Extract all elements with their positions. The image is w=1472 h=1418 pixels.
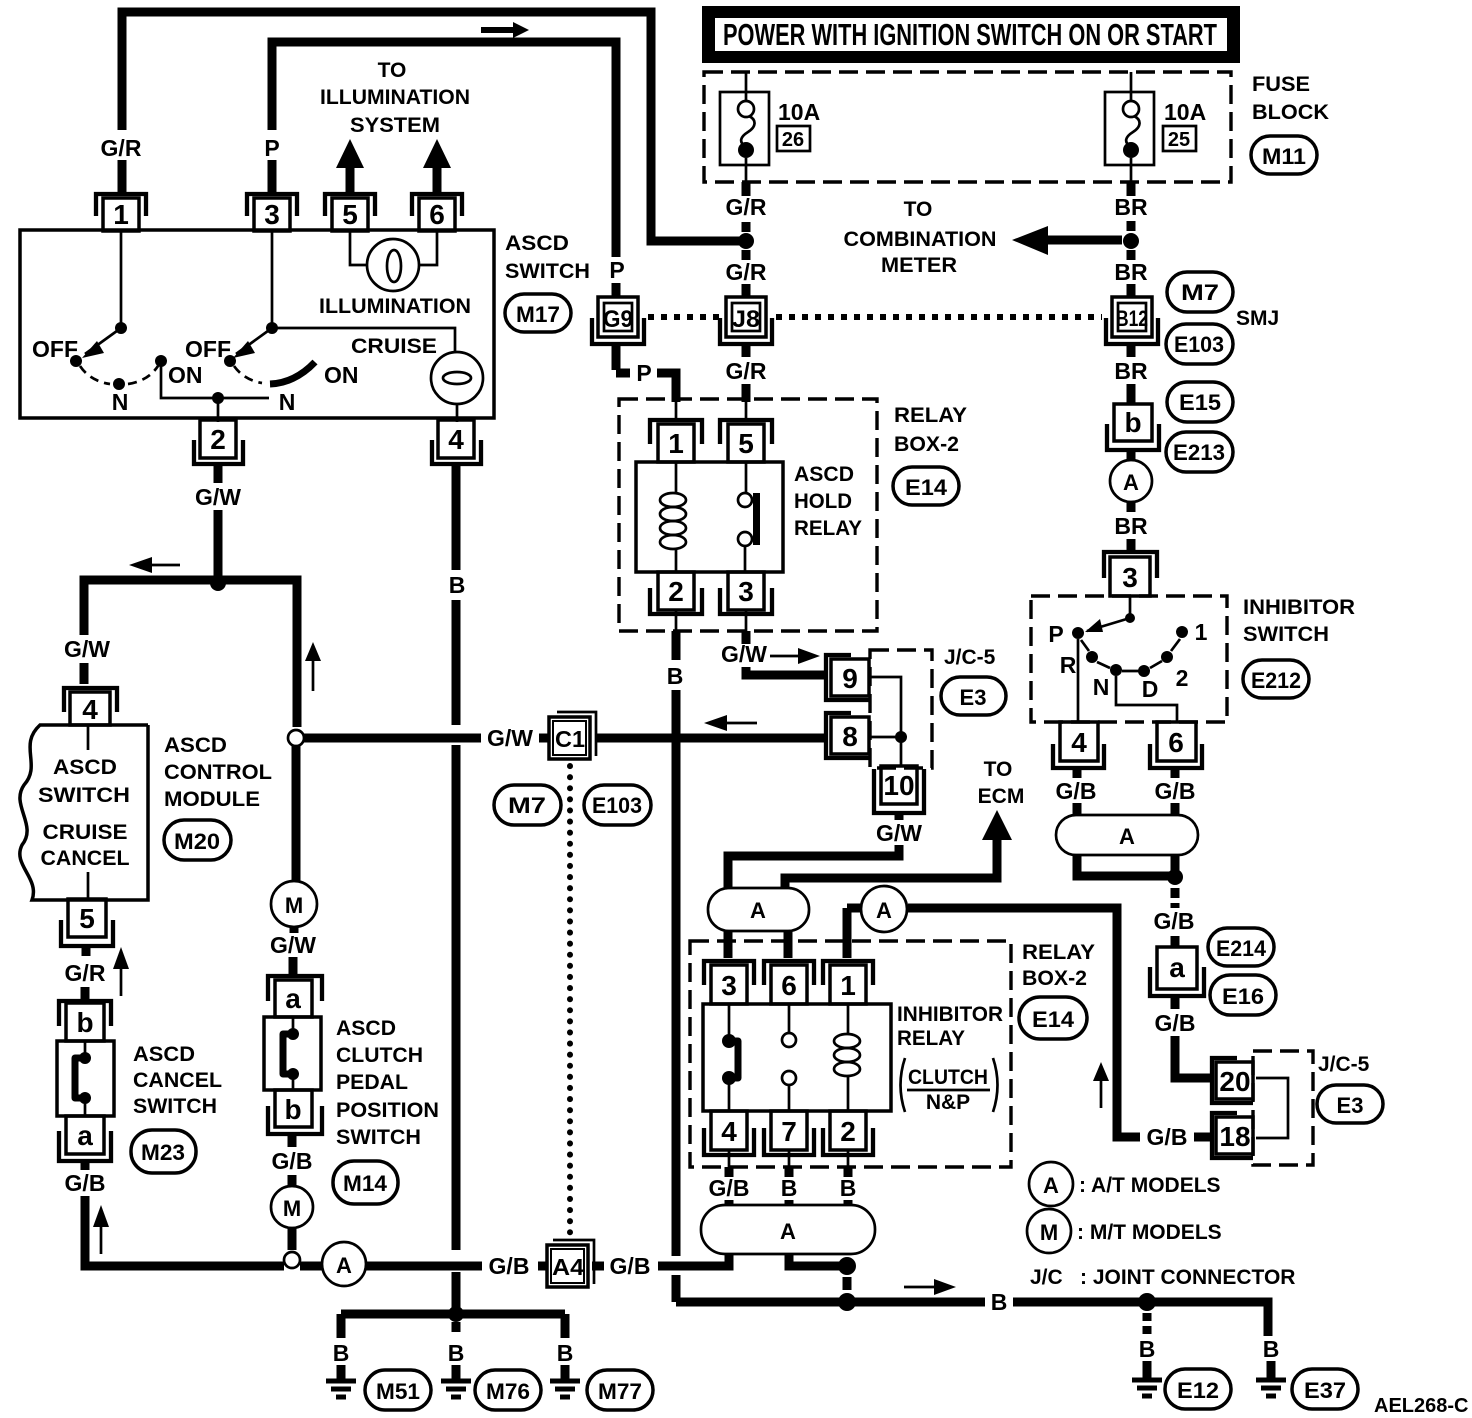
svg-text:MODULE: MODULE bbox=[164, 788, 260, 811]
svg-text:M76: M76 bbox=[486, 1379, 530, 1404]
ground bus below B wire bbox=[341, 1314, 565, 1338]
contact R bbox=[1086, 651, 1098, 663]
wire BR from circle A to inhibitor connector 3 bbox=[1127, 502, 1136, 552]
wire stub to E37 ground bbox=[1267, 1361, 1276, 1380]
svg-text:G/W: G/W bbox=[64, 636, 110, 662]
svg-text:5: 5 bbox=[738, 428, 754, 459]
node below pill bbox=[1167, 869, 1183, 885]
svg-text:TO: TO bbox=[904, 198, 933, 221]
label ASCD HOLD RELAY bbox=[794, 463, 862, 540]
svg-text:a: a bbox=[77, 1120, 93, 1151]
connector oval E3 bbox=[941, 677, 1006, 715]
J/C-5 pin 20 bbox=[1212, 1058, 1253, 1103]
label TO COMBINATION METER bbox=[844, 198, 997, 277]
wire stub to E12 ground bbox=[1143, 1361, 1152, 1380]
svg-text:ON: ON bbox=[168, 362, 203, 388]
svg-text:ASCD: ASCD bbox=[133, 1043, 195, 1066]
wire from M circle to main run node bbox=[288, 1228, 297, 1250]
J/C-5 pin 18 bbox=[1212, 1113, 1253, 1158]
svg-text:G/B: G/B bbox=[272, 1148, 313, 1174]
J/C-5 dashed box E3 bbox=[870, 650, 932, 768]
svg-text:ON: ON bbox=[324, 362, 359, 388]
connector pin 4 of ASCD switch bbox=[432, 420, 481, 464]
connector oval M20 bbox=[164, 820, 231, 860]
circle A (A/T models) in BR run bbox=[1110, 460, 1152, 502]
wire from b to A/T circle bbox=[1127, 450, 1136, 461]
J/C-5 internal wiring 20-18 bbox=[1256, 1078, 1288, 1138]
svg-text:G/B: G/B bbox=[1155, 778, 1196, 804]
svg-text:G/W: G/W bbox=[270, 932, 316, 958]
main switch dashed detent arc OFF-N-ON bbox=[80, 366, 158, 384]
svg-text:3: 3 bbox=[738, 576, 754, 607]
svg-text:G/R: G/R bbox=[101, 135, 142, 161]
svg-text:P: P bbox=[636, 360, 651, 386]
inhibitor relay connector 1 bbox=[823, 961, 873, 1004]
wires from connectors 4 7 2 out of relay box bbox=[729, 1150, 848, 1167]
svg-text:CLUTCH: CLUTCH bbox=[908, 1066, 988, 1089]
svg-text:6: 6 bbox=[429, 199, 445, 230]
wire G/B from a to J/C-5 pin 20 bbox=[1175, 996, 1210, 1078]
cruise switch wire from pin 3 to pivot bbox=[271, 231, 274, 328]
pin 2 node bbox=[212, 392, 224, 404]
svg-text:1: 1 bbox=[1195, 619, 1208, 645]
svg-text:4: 4 bbox=[721, 1116, 737, 1147]
svg-text:G/W: G/W bbox=[721, 641, 767, 667]
svg-text:M20: M20 bbox=[174, 829, 220, 854]
svg-text:A: A bbox=[336, 1253, 352, 1278]
svg-text:G/R: G/R bbox=[726, 259, 767, 285]
wire from contact P to connector 4 bbox=[1077, 639, 1080, 723]
svg-text:E12: E12 bbox=[1177, 1378, 1219, 1403]
svg-text:M23: M23 bbox=[141, 1140, 185, 1165]
inhibitor relay connector 6 bbox=[764, 961, 814, 1004]
wire G/B from connector 4 to A/T pill bbox=[1073, 768, 1082, 816]
hold relay connector pin 2 bbox=[650, 572, 702, 614]
svg-text:SWITCH: SWITCH bbox=[133, 1095, 217, 1118]
wire from module node down to M/T circle bbox=[292, 746, 301, 882]
arrow up beside module wire bbox=[305, 642, 321, 691]
svg-text:POWER WITH IGNITION SWITCH ON: POWER WITH IGNITION SWITCH ON OR START bbox=[723, 17, 1217, 52]
ground M77 bbox=[550, 1365, 580, 1397]
svg-text:INHIBITOR: INHIBITOR bbox=[897, 1003, 1003, 1026]
cruise lamp bbox=[431, 352, 483, 404]
connector oval E103 (SMJ) bbox=[1166, 324, 1233, 364]
svg-text:26: 26 bbox=[782, 129, 804, 151]
inhibitor relay coil pins 1-2 bbox=[834, 1004, 860, 1111]
svg-text:2: 2 bbox=[1176, 665, 1189, 691]
svg-text:N: N bbox=[1093, 674, 1110, 700]
label (CLUTCH / N&P) bbox=[901, 1058, 998, 1114]
label RELAY BOX-2 bbox=[1022, 941, 1095, 990]
arrow left above junction bbox=[129, 557, 180, 573]
J/C-5 internal wiring 9-8-10 bbox=[869, 677, 901, 766]
inhibitor relay connector 3 bbox=[704, 961, 754, 1004]
svg-text:B: B bbox=[1263, 1336, 1280, 1362]
connector pin 3 of ASCD switch bbox=[247, 194, 297, 231]
svg-text:E14: E14 bbox=[1032, 1007, 1075, 1032]
wire G/W left branch to cruise cancel pin 4 bbox=[84, 580, 218, 684]
hold relay connector pin 5 bbox=[720, 420, 772, 462]
svg-text:BR: BR bbox=[1114, 194, 1148, 220]
svg-text:A4: A4 bbox=[552, 1254, 584, 1280]
label INHIBITOR SWITCH bbox=[1243, 596, 1355, 646]
connector C1 bbox=[549, 712, 596, 759]
arrow up beside G/R wire bbox=[113, 947, 129, 996]
illumination lamp bbox=[367, 239, 419, 291]
svg-text:B: B bbox=[840, 1175, 857, 1201]
svg-text:D: D bbox=[1142, 676, 1159, 702]
svg-text:b: b bbox=[284, 1094, 301, 1125]
svg-text:B12: B12 bbox=[1116, 306, 1148, 331]
inhibitor relay connector 4 bbox=[704, 1111, 754, 1155]
arrow to ECM bbox=[982, 810, 1012, 840]
connector G9 bbox=[592, 297, 644, 344]
svg-text:ASCD: ASCD bbox=[794, 463, 854, 486]
connector oval E14 bbox=[893, 467, 959, 505]
svg-text:ASCD: ASCD bbox=[505, 232, 569, 255]
svg-text:G/R: G/R bbox=[726, 358, 767, 384]
arrow up beside G/B wire bbox=[93, 1205, 109, 1254]
svg-text:2: 2 bbox=[840, 1116, 856, 1147]
connector A4 bbox=[547, 1240, 594, 1287]
ground M51 bbox=[326, 1365, 356, 1397]
cruise switch engaged thick arc N-ON bbox=[270, 362, 315, 384]
connector oval M11 bbox=[1251, 136, 1317, 174]
svg-text:B: B bbox=[991, 1289, 1008, 1315]
svg-text:M17: M17 bbox=[516, 302, 560, 327]
connector oval E213 bbox=[1166, 432, 1233, 472]
label ASCD CLUTCH PEDAL POSITION SWITCH bbox=[336, 1017, 439, 1149]
wire B from ASCD switch pin 4 down to ground bus bbox=[452, 464, 461, 1314]
wire G/W from M circle to clutch switch pin a bbox=[293, 927, 294, 974]
svg-text:C1: C1 bbox=[555, 726, 585, 752]
wire from main ON contact to pin 2 node bbox=[161, 365, 218, 398]
svg-text:M7: M7 bbox=[1181, 280, 1219, 305]
wire G/W from hold relay pin 3 to J/C-5 pin 9 bbox=[745, 610, 748, 631]
svg-text:B: B bbox=[1139, 1336, 1156, 1362]
dashed wire to E12 ground bbox=[1143, 1313, 1152, 1334]
connector oval M77 bbox=[587, 1370, 653, 1410]
connector oval E3 bbox=[1317, 1085, 1383, 1123]
label TO ILLUMINATION SYSTEM bbox=[320, 59, 470, 137]
connector oval E15 bbox=[1167, 382, 1233, 422]
svg-text:M: M bbox=[283, 1196, 301, 1221]
svg-text:B: B bbox=[333, 1340, 350, 1366]
svg-text:7: 7 bbox=[781, 1116, 797, 1147]
contact D bbox=[1138, 665, 1150, 677]
circle A (A/T) on inhibitor relay pin 1 wire bbox=[847, 886, 907, 958]
wire G/W right branch down to module node bbox=[218, 580, 297, 727]
ground E37 bbox=[1256, 1380, 1286, 1396]
cruise switch pivot node bbox=[266, 322, 278, 334]
fuse block M11 dashed box bbox=[704, 72, 1231, 182]
A/T models pill (inhibitor switch feeds) bbox=[1056, 815, 1198, 855]
node G/W junction bbox=[210, 575, 226, 591]
connector pin 5 of ASCD switch bbox=[325, 194, 375, 231]
svg-text:ILLUMINATION: ILLUMINATION bbox=[320, 86, 470, 109]
svg-text:INHIBITOR: INHIBITOR bbox=[1243, 596, 1355, 619]
svg-text:3: 3 bbox=[721, 970, 737, 1001]
svg-text:R: R bbox=[1060, 652, 1077, 678]
wire P jog into relay box bbox=[657, 373, 676, 402]
svg-text:G/B: G/B bbox=[1056, 778, 1097, 804]
wire B stub pin 7 bbox=[785, 1167, 794, 1177]
connector oval E214 bbox=[1208, 928, 1274, 966]
svg-text:AEL268-C: AEL268-C bbox=[1374, 1395, 1468, 1417]
inhibitor rotor arm to P bbox=[1085, 618, 1130, 632]
connector pin 2 of ASCD switch bbox=[194, 420, 243, 464]
svg-text:6: 6 bbox=[1168, 727, 1184, 758]
svg-text:E3: E3 bbox=[960, 685, 987, 710]
svg-text:POSITION: POSITION bbox=[336, 1099, 439, 1122]
svg-text:M77: M77 bbox=[598, 1379, 642, 1404]
svg-text:G/B: G/B bbox=[489, 1253, 530, 1279]
node G/R junction bbox=[738, 233, 754, 249]
ground M76 bbox=[441, 1365, 471, 1397]
A/T models pill above inhibitor relay bbox=[708, 888, 809, 931]
svg-text:b: b bbox=[1124, 407, 1141, 438]
svg-text:M11: M11 bbox=[1262, 144, 1306, 169]
svg-text:CLUTCH: CLUTCH bbox=[336, 1044, 423, 1067]
main switch arm toward OFF bbox=[82, 328, 121, 358]
svg-text:BOX-2: BOX-2 bbox=[894, 433, 959, 456]
wire BR from B12 to b bbox=[1127, 344, 1136, 404]
svg-text:N&P: N&P bbox=[926, 1091, 970, 1114]
legend circle A bbox=[1029, 1162, 1073, 1206]
hold relay connector pin 1 bbox=[650, 420, 702, 462]
svg-text:CANCEL: CANCEL bbox=[133, 1069, 222, 1092]
wire from cruise lamp to pin 4 bbox=[456, 404, 459, 422]
svg-text:M51: M51 bbox=[376, 1379, 420, 1404]
svg-text:BLOCK: BLOCK bbox=[1252, 101, 1329, 124]
svg-text:RELAY: RELAY bbox=[894, 404, 967, 427]
svg-text:SWITCH: SWITCH bbox=[38, 784, 130, 807]
inhibitor switch dashed box E212 bbox=[1031, 596, 1227, 722]
hold relay connector pin 3 bbox=[720, 572, 772, 614]
main switch N contact bbox=[113, 378, 125, 390]
dotted link J8 to B12 bbox=[776, 314, 1102, 320]
svg-text:1: 1 bbox=[840, 970, 856, 1001]
svg-text:METER: METER bbox=[881, 254, 957, 277]
inhibitor switch connector 6 bbox=[1150, 722, 1202, 768]
svg-text:G/W: G/W bbox=[487, 725, 533, 751]
clutch switch connector b bbox=[268, 1090, 322, 1134]
svg-text:B: B bbox=[448, 1340, 465, 1366]
FUSE BLOCK label bbox=[1252, 73, 1329, 124]
svg-text:a: a bbox=[1169, 952, 1185, 983]
contact N bbox=[1110, 664, 1122, 676]
wire B stub pin 2 bbox=[844, 1167, 853, 1177]
dotted link G9 to J8 bbox=[648, 314, 720, 320]
wire from node to pin 2 bbox=[217, 398, 220, 422]
circle M (M/T models) on module wire bbox=[271, 881, 317, 927]
contact 1 bbox=[1176, 626, 1188, 638]
svg-text:A: A bbox=[876, 898, 892, 923]
svg-text:B: B bbox=[781, 1175, 798, 1201]
wire G/R below fuse 26 with junction bbox=[742, 182, 751, 297]
ground E12 bbox=[1132, 1380, 1162, 1396]
svg-text:4: 4 bbox=[448, 424, 464, 455]
svg-text:P: P bbox=[264, 135, 279, 161]
svg-text:E103: E103 bbox=[1174, 332, 1224, 357]
dashed wire below node bbox=[1171, 888, 1180, 908]
connector oval E12 bbox=[1165, 1369, 1231, 1409]
svg-text:18: 18 bbox=[1219, 1121, 1250, 1152]
connector oval M14 bbox=[333, 1161, 398, 1204]
wire from cruise pivot to cruise lamp bbox=[272, 328, 455, 352]
wires into lower pill bbox=[729, 1200, 848, 1206]
inhibitor switch connector 4 bbox=[1053, 722, 1104, 768]
illumination lamp wiring from pins 5 and 6 bbox=[350, 231, 437, 265]
connector oval M7 (SMJ) bbox=[1167, 272, 1233, 312]
ASCD switch cruise cancel body (torn box) bbox=[20, 725, 148, 900]
svg-text:3: 3 bbox=[264, 199, 280, 230]
svg-text:G/B: G/B bbox=[1155, 1010, 1196, 1036]
ASCD switch M17 body box bbox=[20, 230, 494, 418]
internal stub top bbox=[87, 725, 90, 750]
detent path segments bbox=[1081, 639, 1180, 671]
svg-text:4: 4 bbox=[82, 694, 98, 725]
node on ground bus bbox=[448, 1306, 464, 1322]
wire P into hold relay pin 1 bbox=[616, 344, 630, 373]
svg-text:3: 3 bbox=[1122, 562, 1138, 593]
wire from pill to G/B node bbox=[1077, 855, 1175, 877]
svg-text:RELAY: RELAY bbox=[1022, 941, 1095, 964]
inhibitor relay contact pins 3-4 bbox=[722, 1004, 738, 1111]
svg-text:RELAY: RELAY bbox=[897, 1027, 965, 1050]
connector b (E15/E213) bbox=[1107, 404, 1159, 450]
svg-text:ASCD: ASCD bbox=[336, 1017, 396, 1040]
J/C-5 pin 8 bbox=[826, 713, 869, 758]
inhibitor switch connector 3 bbox=[1104, 552, 1157, 596]
svg-text:BR: BR bbox=[1114, 259, 1148, 285]
svg-text:A: A bbox=[1043, 1173, 1059, 1198]
svg-text:G/R: G/R bbox=[726, 194, 767, 220]
arrow up into illumination system from pin 5 bbox=[336, 139, 364, 196]
svg-text:E214: E214 bbox=[1216, 936, 1267, 961]
wire B from hold relay pin 2 down bbox=[675, 610, 678, 631]
svg-text:G/B: G/B bbox=[709, 1175, 750, 1201]
svg-text:5: 5 bbox=[342, 199, 358, 230]
svg-text:SWITCH: SWITCH bbox=[505, 260, 590, 283]
svg-text:1: 1 bbox=[668, 428, 684, 459]
svg-text:G9: G9 bbox=[603, 306, 633, 333]
connector oval M51 bbox=[365, 1370, 431, 1410]
inhibitor rotor wire from connector 3 bbox=[1129, 596, 1132, 618]
main switch wire from pin 1 to pivot bbox=[120, 231, 123, 328]
svg-text:P: P bbox=[1048, 621, 1063, 647]
cruise switch dashed detent OFF-N bbox=[234, 366, 262, 383]
main G/B run along bottom bbox=[155, 1254, 729, 1266]
svg-text:a: a bbox=[285, 983, 301, 1014]
cruise switch arm toward OFF bbox=[233, 328, 272, 358]
ASCD clutch pedal position switch body M14 bbox=[264, 1017, 321, 1090]
svg-text:J/C: J/C bbox=[1030, 1266, 1063, 1289]
svg-text:RELAY: RELAY bbox=[794, 517, 862, 540]
fuse 25 number box 25 bbox=[1163, 126, 1196, 151]
svg-text:A: A bbox=[750, 898, 766, 923]
svg-text:CRUISE: CRUISE bbox=[43, 821, 128, 844]
circle M (M/T models) bbox=[271, 1186, 313, 1228]
svg-text:CRUISE: CRUISE bbox=[351, 335, 437, 358]
node on B run bbox=[838, 1293, 856, 1311]
connector oval E103 bbox=[584, 785, 651, 825]
svg-text:COMBINATION: COMBINATION bbox=[844, 228, 997, 251]
inhibitor relay connector 2 bbox=[823, 1111, 873, 1155]
wire G/B from circle A to J/C-5 pin 18 bbox=[908, 908, 1212, 1137]
wire to ECM from pill bbox=[785, 836, 997, 888]
svg-text:TO: TO bbox=[378, 59, 407, 82]
wire G/B from clutch switch b to M/T circle bbox=[288, 1134, 297, 1186]
inhibitor relay body bbox=[703, 1004, 891, 1111]
connector oval E16 bbox=[1210, 975, 1276, 1015]
svg-text:E16: E16 bbox=[1222, 984, 1264, 1009]
node BR junction bbox=[1123, 233, 1139, 249]
main switch ON contact bbox=[155, 355, 167, 367]
svg-text:E103: E103 bbox=[592, 793, 642, 818]
svg-text:G/W: G/W bbox=[195, 484, 241, 510]
wire G/R into hold relay pin 5 bbox=[742, 344, 751, 402]
wire G/W from module node to C1 bbox=[304, 734, 549, 743]
wire G/B from cancel switch a to main run bbox=[85, 1161, 155, 1266]
relay box-2 dashed enclosure (inhibitor relay) bbox=[690, 941, 1011, 1167]
svg-text:M14: M14 bbox=[343, 1171, 388, 1196]
contact 2 bbox=[1161, 651, 1173, 663]
J/C-5 pin 9 bbox=[826, 655, 869, 700]
svg-text:OFF: OFF bbox=[185, 336, 231, 362]
svg-text:G/B: G/B bbox=[610, 1253, 651, 1279]
svg-text:10A: 10A bbox=[778, 99, 820, 125]
wire G/R from ASCD switch pin 1 to fuse 26 node (top run) bbox=[122, 12, 741, 241]
svg-text:G/B: G/B bbox=[65, 1170, 106, 1196]
svg-text:BR: BR bbox=[1114, 513, 1148, 539]
wire G/B stub pin 4 bbox=[725, 1167, 734, 1177]
svg-text:E212: E212 bbox=[1251, 668, 1301, 693]
svg-text:A: A bbox=[1119, 824, 1135, 849]
svg-text:b: b bbox=[76, 1007, 93, 1038]
arrow to combination meter from BR node bbox=[1012, 226, 1122, 255]
inhibitor relay open contact pins 6-7 bbox=[782, 1004, 796, 1111]
svg-text:N: N bbox=[279, 389, 296, 415]
svg-text:B: B bbox=[449, 572, 466, 598]
fuse 25 bbox=[1105, 72, 1154, 182]
label ASCD CONTROL MODULE bbox=[164, 734, 272, 811]
connector pin 1 of ASCD switch bbox=[96, 194, 146, 231]
node open circle (clutch M/T join) bbox=[284, 1252, 300, 1268]
fuse 26 bbox=[720, 72, 769, 182]
svg-text:: M/T MODELS: : M/T MODELS bbox=[1077, 1221, 1222, 1244]
wire BR below fuse 25 with junction bbox=[1127, 182, 1136, 297]
svg-text:PEDAL: PEDAL bbox=[336, 1071, 408, 1094]
connector oval E212 bbox=[1243, 660, 1309, 698]
svg-text:25: 25 bbox=[1168, 129, 1190, 151]
dashed link down to B run bbox=[843, 1277, 852, 1290]
ASCD cancel switch body M23 bbox=[57, 1041, 114, 1116]
main switch pivot node bbox=[115, 322, 127, 334]
cancel switch connector a bbox=[59, 1116, 111, 1161]
dashed stub below node bbox=[452, 1322, 461, 1332]
cancel switch connector b bbox=[59, 1001, 111, 1041]
svg-text:1: 1 bbox=[113, 199, 129, 230]
main switch OFF contact bbox=[70, 355, 82, 367]
hold relay coil between pins 1 and 2 bbox=[660, 462, 686, 572]
svg-text:G/B: G/B bbox=[1147, 1124, 1188, 1150]
wires from pill into relay box pins 3 and 6 bbox=[728, 931, 788, 958]
svg-text:BR: BR bbox=[1114, 358, 1148, 384]
arrow right above B run bbox=[904, 1279, 956, 1295]
svg-text:E14: E14 bbox=[905, 475, 948, 500]
internal stub bottom bbox=[87, 872, 90, 900]
